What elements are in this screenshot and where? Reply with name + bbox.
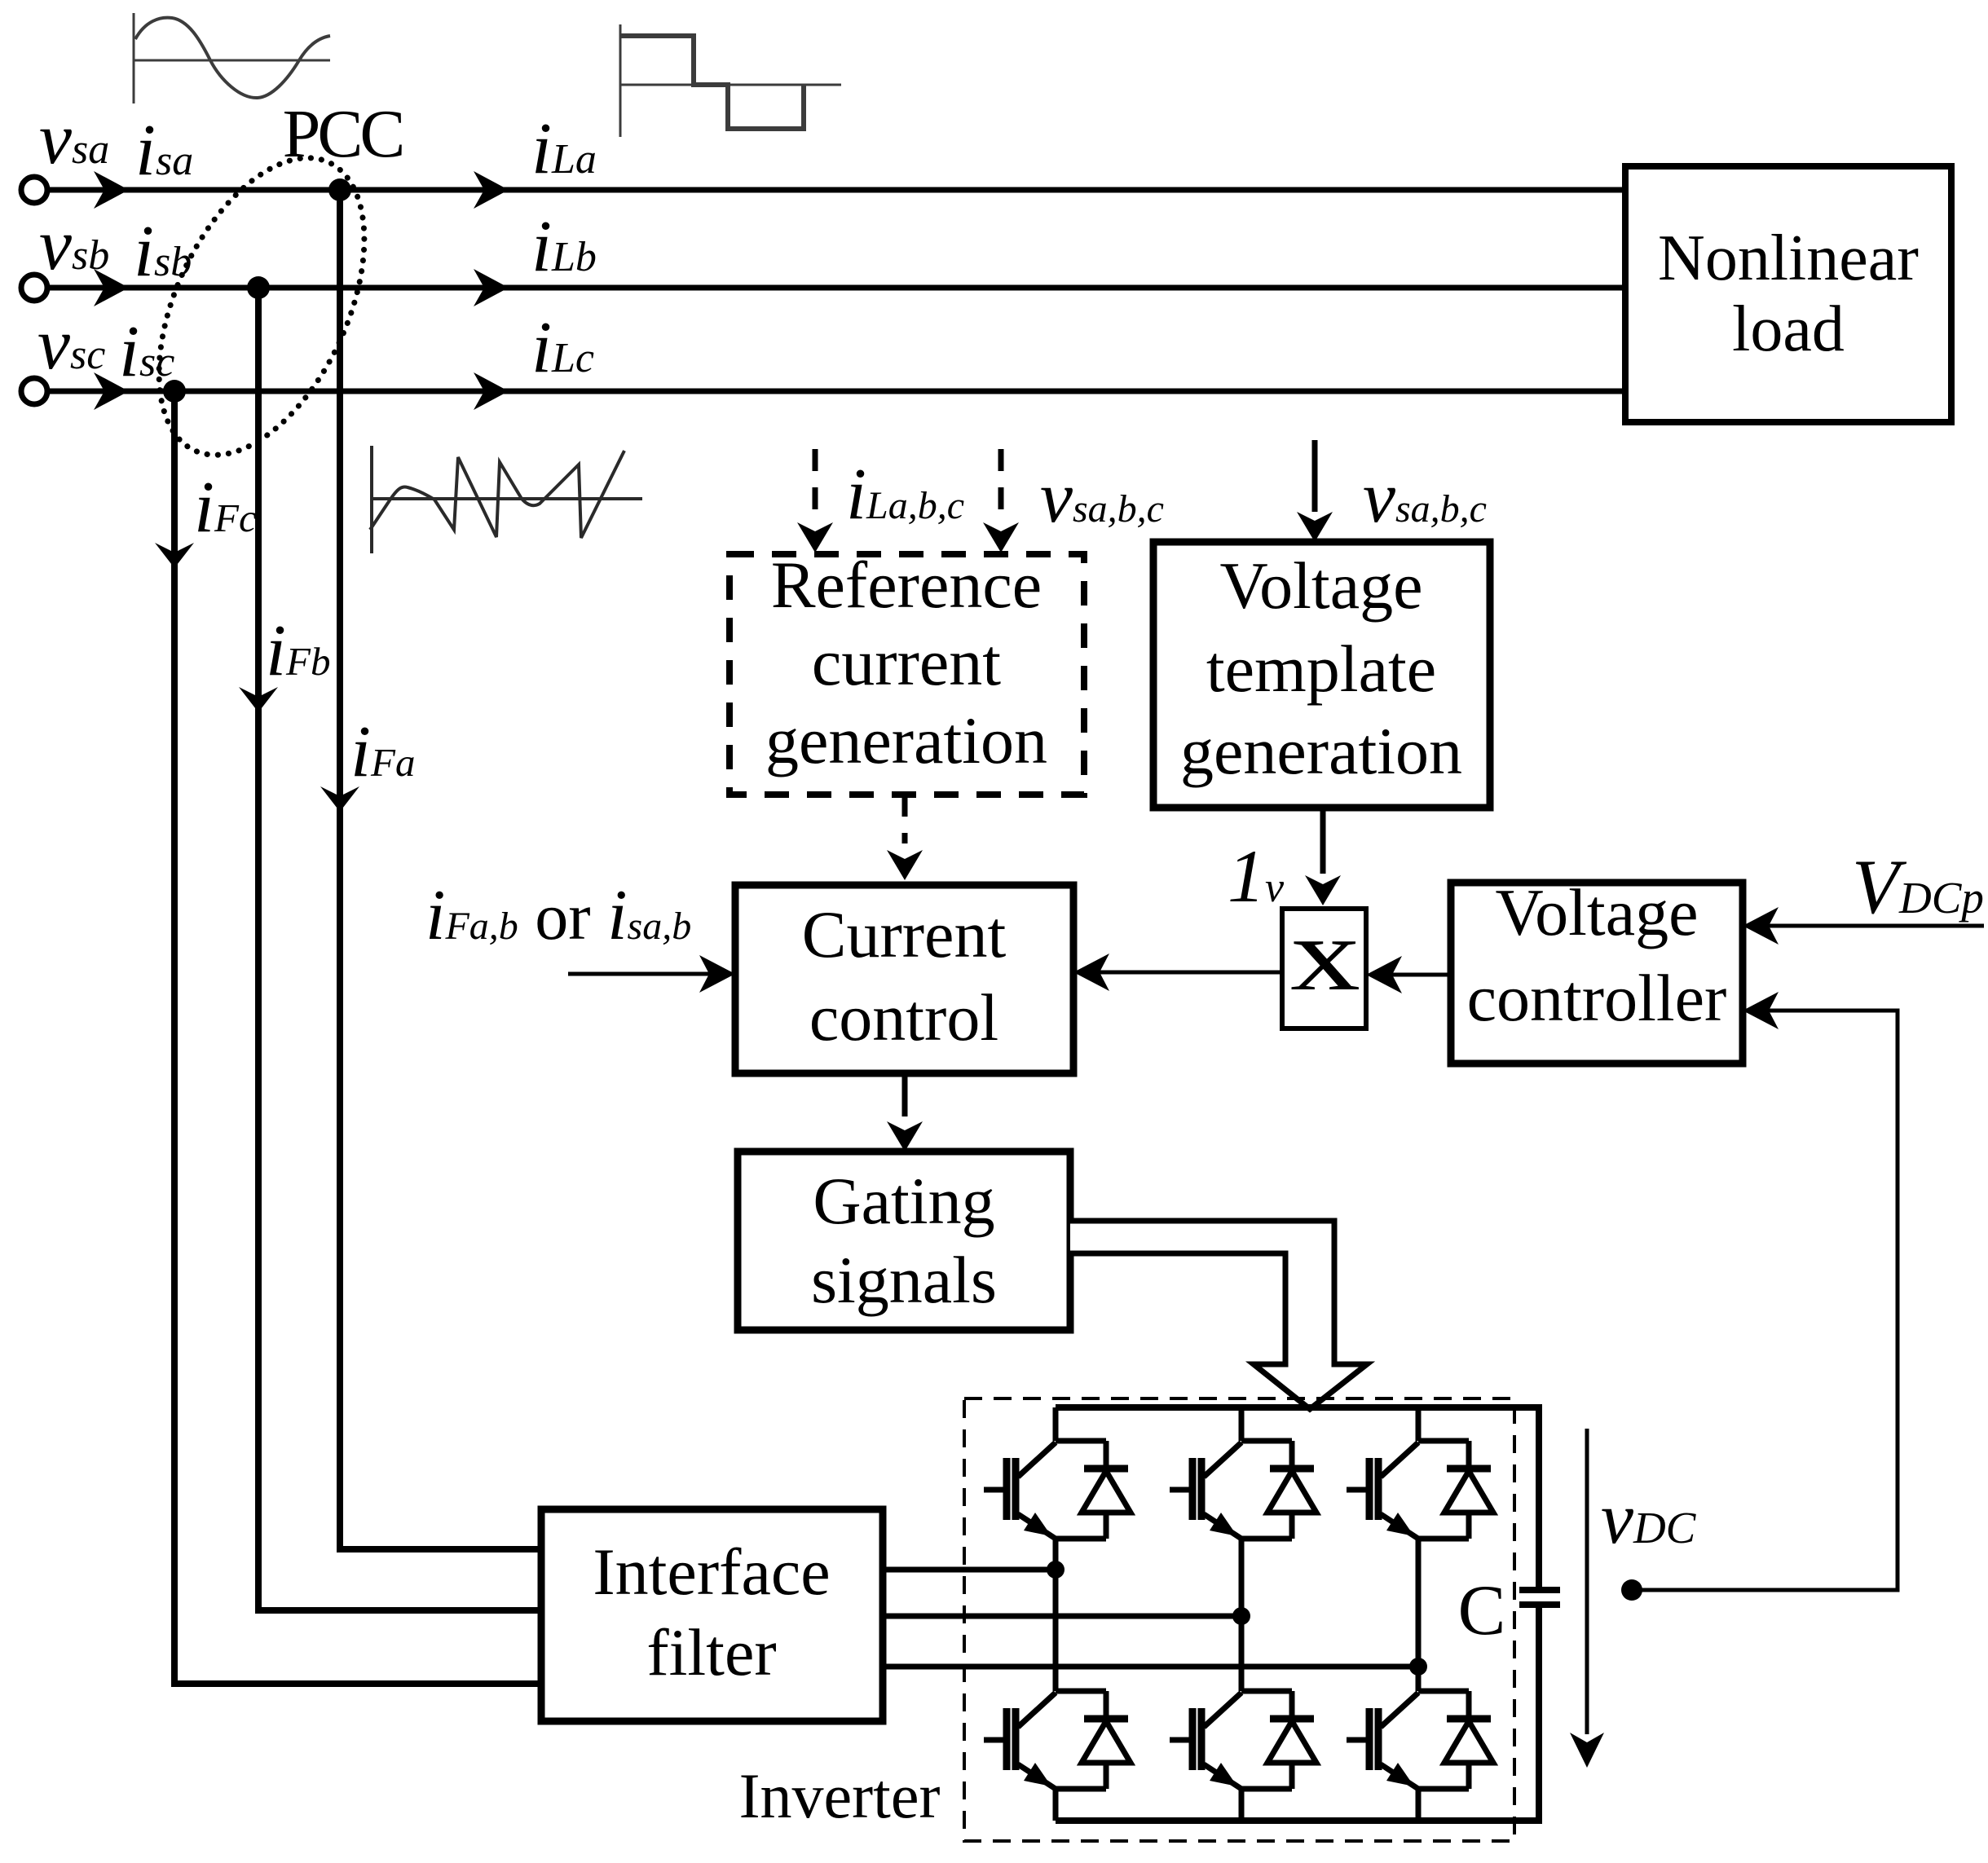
IGBT Q2 + diode D2 (bottom leg c) bbox=[1347, 1691, 1493, 1789]
svg-text:control: control bbox=[809, 980, 998, 1055]
svg-text:filter: filter bbox=[646, 1615, 776, 1689]
wire leg a verticals bbox=[1053, 1407, 1059, 1821]
wire iFc feeder bbox=[174, 391, 541, 1684]
svg-text:load: load bbox=[1732, 293, 1845, 365]
arrow iFc bbox=[155, 543, 194, 568]
svg-text:Current: Current bbox=[802, 897, 1007, 971]
IGBT Q5 + diode D5 (top leg c) bbox=[1347, 1441, 1493, 1539]
svg-text:signals: signals bbox=[811, 1243, 997, 1317]
arrow iFb bbox=[239, 687, 278, 712]
block Nonlinear load bbox=[1625, 166, 1951, 422]
arrow vDC into voltage controller bbox=[1743, 992, 1779, 1029]
node PCC phase c junction bbox=[163, 380, 186, 403]
svg-text:Inverter: Inverter bbox=[739, 1760, 941, 1831]
node vDC sense bbox=[1621, 1579, 1642, 1601]
svg-text:Reference: Reference bbox=[771, 548, 1042, 622]
arrow isa bbox=[94, 171, 129, 209]
wire bottom DC bus bbox=[1056, 1607, 1539, 1821]
wire leg c verticals bbox=[1416, 1407, 1422, 1821]
distorted waveform icon bbox=[370, 446, 642, 553]
svg-text:Voltage: Voltage bbox=[1495, 875, 1698, 949]
sine waveform icon bbox=[134, 13, 330, 103]
square waveform icon bbox=[620, 24, 841, 137]
wire iFb feeder bbox=[258, 288, 541, 1610]
node leg a midpoint bbox=[1047, 1561, 1065, 1579]
arrow VDCp into voltage controller bbox=[1769, 924, 1984, 928]
source terminal circle phase c bbox=[21, 378, 47, 404]
inverter dashed box bbox=[964, 1398, 1514, 1841]
block Voltage controller bbox=[1451, 883, 1743, 1064]
wire vDC feedback bbox=[1642, 1011, 1898, 1590]
node leg b midpoint bbox=[1232, 1607, 1250, 1625]
arrow current control to gating signals bbox=[902, 1073, 908, 1116]
wire phase c to inverter bbox=[883, 1664, 1418, 1670]
arrow vDC measurement bbox=[1585, 1429, 1589, 1734]
arrow iLb bbox=[474, 269, 509, 306]
PCC dotted ellipse bbox=[117, 126, 406, 487]
IGBT Q6 + diode D6 (bottom leg b) bbox=[1170, 1691, 1316, 1789]
svg-text:Interface: Interface bbox=[593, 1535, 830, 1609]
arrow iLa bbox=[474, 171, 509, 209]
dashed arrow iLa,b,c into RCG bbox=[813, 449, 818, 522]
source terminal circle phase a bbox=[21, 177, 47, 203]
node PCC phase b junction bbox=[247, 276, 270, 299]
block Gating signals bbox=[738, 1152, 1070, 1330]
wire voltage controller to multiplier bbox=[1392, 973, 1451, 977]
source terminal circle phase b bbox=[21, 275, 47, 301]
wire phase c bus bbox=[47, 389, 1625, 394]
IGBT Q1 + diode D1 (top leg a) bbox=[984, 1441, 1131, 1539]
IGBT Q3 + diode D3 (top leg b) bbox=[1170, 1441, 1316, 1539]
capacitor C plates bbox=[1519, 1587, 1560, 1593]
svg-text:Gating: Gating bbox=[813, 1164, 994, 1238]
hollow arrow gating to inverter bbox=[1070, 1221, 1367, 1409]
block Interface filter bbox=[541, 1509, 883, 1721]
multiplier box X bbox=[1282, 909, 1366, 1028]
wire multiplier to current control bbox=[1100, 971, 1282, 975]
svg-text:generation: generation bbox=[1180, 714, 1462, 788]
block Voltage template generation bbox=[1153, 542, 1490, 808]
block Reference current generation (dashed) bbox=[730, 554, 1084, 795]
arrow iLc bbox=[474, 372, 509, 410]
dashed arrow vsa,b,c into RCG bbox=[998, 449, 1004, 522]
svg-text:x: x bbox=[1290, 896, 1360, 1012]
arrow into current control right bbox=[1073, 954, 1109, 991]
node leg c midpoint bbox=[1409, 1658, 1427, 1676]
arrow isb bbox=[94, 269, 129, 306]
wire phase b to inverter bbox=[883, 1614, 1241, 1619]
svg-text:Nonlinear: Nonlinear bbox=[1658, 222, 1919, 294]
wire phase b bus bbox=[47, 285, 1625, 291]
wire phase a bus bbox=[47, 187, 1625, 193]
arrow iFa,b into Current control bbox=[568, 972, 709, 976]
svg-text:template: template bbox=[1206, 632, 1436, 706]
svg-text:controller: controller bbox=[1467, 961, 1727, 1035]
arrow iFa bbox=[320, 786, 359, 812]
arrow into multiplier right bbox=[1366, 956, 1402, 993]
arrow isc bbox=[94, 372, 129, 410]
svg-text:C: C bbox=[1458, 1571, 1506, 1650]
node PCC phase a junction bbox=[328, 178, 351, 201]
wire phase a to inverter bbox=[883, 1567, 1056, 1573]
arrow VTG to multiplier bbox=[1320, 808, 1326, 874]
svg-text:Voltage: Voltage bbox=[1219, 548, 1422, 623]
arrow vsa,b,c into VTG bbox=[1312, 440, 1318, 512]
wire top DC bus bbox=[1056, 1407, 1539, 1588]
wire leg b verticals bbox=[1239, 1407, 1245, 1821]
IGBT Q4 + diode D4 (bottom leg a) bbox=[984, 1691, 1131, 1789]
block Current control bbox=[735, 885, 1073, 1073]
svg-text:current: current bbox=[812, 625, 1001, 699]
svg-text:generation: generation bbox=[765, 703, 1047, 777]
wire iFa feeder bbox=[340, 190, 541, 1549]
dashed arrow RCG to Current control bbox=[902, 795, 908, 843]
